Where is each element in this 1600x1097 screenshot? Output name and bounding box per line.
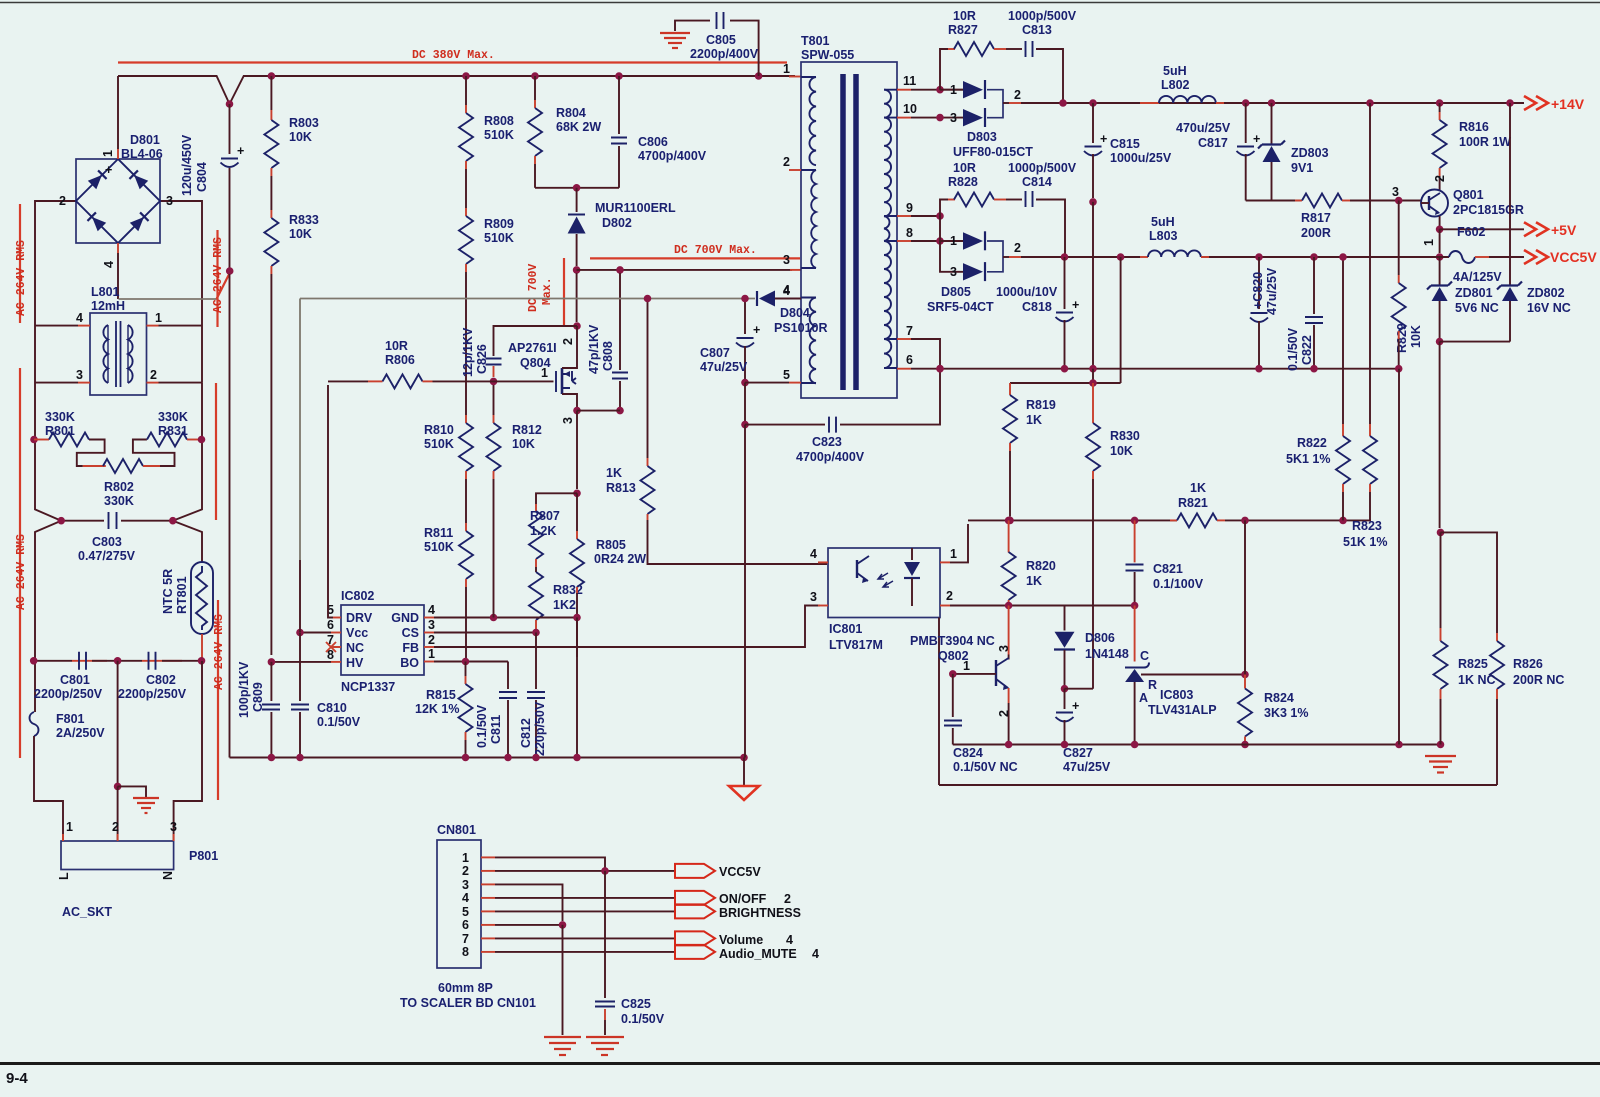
svg-text:4: 4	[76, 311, 83, 325]
zener ZD803	[1271, 103, 1273, 145]
svg-text:R833: R833	[289, 213, 319, 227]
svg-text:VCC5V: VCC5V	[719, 865, 761, 879]
wire DRV pin5	[333, 617, 341, 619]
svg-text:Vcc: Vcc	[346, 626, 368, 640]
transformer T801	[801, 62, 897, 398]
wire CN801 pin6	[481, 924, 495, 926]
resistor R825	[1437, 529, 1445, 537]
wire Vcc pin6	[331, 632, 341, 634]
T801 primary winding pins1-3	[809, 77, 816, 165]
svg-text:+5V: +5V	[1551, 222, 1577, 238]
svg-text:1: 1	[462, 851, 469, 865]
svg-text:C824: C824	[953, 746, 983, 760]
shunt IC803 TLV431	[1134, 606, 1136, 662]
flag ON/OFF	[675, 891, 715, 905]
pin7 NC no-connect	[326, 642, 341, 652]
svg-text:Q801: Q801	[1453, 188, 1484, 202]
svg-text:C804: C804	[195, 162, 209, 192]
wire source node	[577, 410, 620, 412]
wire IC803 ref line	[1141, 674, 1245, 676]
svg-text:1K: 1K	[606, 466, 622, 480]
capacitor C827	[1064, 689, 1066, 709]
wire L801 pin1	[147, 325, 159, 327]
wire BO pin1	[424, 661, 434, 663]
svg-text:N: N	[161, 871, 175, 880]
wire drain node	[576, 273, 578, 322]
resistor R809	[459, 216, 473, 264]
svg-text:5V6 NC: 5V6 NC	[1455, 301, 1499, 315]
svg-text:R819: R819	[1026, 398, 1056, 412]
resistor R820	[1005, 517, 1013, 525]
capacitor C818	[1064, 257, 1066, 309]
svg-text:7: 7	[462, 932, 469, 946]
svg-text:10R: 10R	[953, 9, 976, 23]
svg-text:3: 3	[166, 194, 173, 208]
wire CN801 pin3	[481, 883, 495, 885]
main HV bus wire	[118, 76, 795, 104]
svg-text:1K2: 1K2	[553, 598, 576, 612]
resistor R808	[465, 76, 467, 105]
wire L801 pin2	[147, 382, 159, 384]
wire pin2 column to P801	[117, 661, 119, 787]
svg-text:3: 3	[950, 265, 957, 279]
svg-text:9: 9	[906, 201, 913, 215]
snubber loop R828/C814	[940, 200, 948, 217]
SEC-AC-INPUT	[15, 201, 226, 919]
svg-text:47u/25V: 47u/25V	[1265, 267, 1279, 315]
resistor R826	[1441, 532, 1498, 633]
svg-text:C825: C825	[621, 997, 651, 1011]
resistor R829	[1398, 201, 1400, 276]
thermistor RT801	[191, 562, 213, 634]
svg-text:DC 700V Max.: DC 700V Max.	[674, 244, 757, 257]
wire CN801 pin8 Audio_MUTE	[481, 951, 495, 953]
capacitor C805 loop	[730, 21, 759, 76]
svg-text:R810: R810	[424, 423, 454, 437]
wire R819/R830 tie line	[1120, 257, 1122, 383]
zener ZD802	[1509, 103, 1511, 285]
svg-text:2: 2	[462, 864, 469, 878]
svg-text:4: 4	[812, 947, 819, 961]
svg-text:3: 3	[561, 417, 575, 424]
wire pin7	[897, 338, 911, 340]
wire return line y785	[939, 784, 1497, 786]
wire R821 node down to IC803 ref	[1244, 520, 1246, 674]
resistor R819	[1009, 383, 1011, 395]
svg-text:330K: 330K	[45, 410, 75, 424]
red marker AC 264V RMS left lower	[19, 368, 21, 758]
svg-text:R826: R826	[1513, 657, 1543, 671]
svg-text:1000u/25V: 1000u/25V	[1110, 151, 1172, 165]
svg-text:4: 4	[810, 547, 817, 561]
svg-text:R827: R827	[948, 23, 978, 37]
svg-text:2: 2	[946, 589, 953, 603]
svg-text:R804: R804	[556, 106, 586, 120]
wire pin3 column to P801	[174, 661, 202, 841]
connector P801	[61, 841, 174, 870]
resistor R816	[1439, 103, 1441, 112]
capacitor C812	[535, 633, 537, 690]
svg-text:9V1: 9V1	[1291, 161, 1313, 175]
resistor R821	[1170, 519, 1177, 521]
svg-text:C821: C821	[1153, 562, 1183, 576]
resistor R806	[328, 380, 368, 382]
svg-text:1K: 1K	[1026, 574, 1042, 588]
SEC-FEEDBACK	[810, 103, 1564, 785]
svg-text:R820: R820	[1026, 559, 1056, 573]
capacitor C801	[79, 652, 86, 670]
node C803 line	[61, 520, 104, 522]
svg-text:510K: 510K	[484, 128, 514, 142]
svg-text:ON/OFF: ON/OFF	[719, 892, 767, 906]
svg-text:5K1 1%: 5K1 1%	[1286, 452, 1330, 466]
svg-text:D801: D801	[130, 133, 160, 147]
T801 primary winding pins4-5	[810, 298, 816, 384]
svg-text:3: 3	[170, 820, 177, 834]
svg-text:F801: F801	[56, 712, 85, 726]
svg-text:10: 10	[903, 102, 917, 116]
svg-text:C822: C822	[1300, 335, 1314, 365]
svg-text:1N4148: 1N4148	[1085, 647, 1129, 661]
inductor L801	[90, 313, 147, 395]
svg-text:10R: 10R	[385, 339, 408, 353]
svg-text:47p/1KV: 47p/1KV	[587, 324, 601, 374]
svg-text:AC 264V RMS: AC 264V RMS	[15, 534, 28, 610]
svg-text:IC801: IC801	[829, 622, 862, 636]
svg-text:R831: R831	[158, 424, 188, 438]
svg-text:0.1/50V: 0.1/50V	[317, 715, 361, 729]
capacitor C809	[270, 662, 272, 701]
svg-text:3: 3	[783, 253, 790, 267]
svg-text:4700p/400V: 4700p/400V	[638, 149, 707, 163]
svg-text:200R: 200R	[1301, 226, 1331, 240]
red marker AC 264V RMS right of bridge	[216, 230, 218, 327]
SEC-T801	[300, 9, 1524, 758]
svg-text:3: 3	[76, 368, 83, 382]
svg-text:2200p/400V: 2200p/400V	[690, 47, 759, 61]
wire CS pin3	[424, 632, 434, 634]
resistor R811	[459, 531, 473, 579]
svg-text:DC 380V Max.: DC 380V Max.	[412, 49, 495, 62]
svg-text:1: 1	[783, 62, 790, 76]
svg-text:+: +	[237, 144, 244, 158]
svg-text:C812: C812	[519, 718, 533, 748]
svg-text:3: 3	[462, 878, 469, 892]
svg-text:Volume: Volume	[719, 933, 763, 947]
svg-text:8: 8	[462, 945, 469, 959]
svg-text:1: 1	[950, 83, 957, 97]
IC801 light arrows	[878, 573, 888, 579]
svg-text:C827: C827	[1063, 746, 1093, 760]
capacitor C802	[149, 652, 156, 670]
svg-text:T801: T801	[801, 34, 830, 48]
wire IC801 pin1	[940, 561, 950, 563]
svg-text:AC 264V RMS: AC 264V RMS	[212, 237, 225, 313]
svg-text:P801: P801	[189, 849, 218, 863]
wire GND pin4	[424, 617, 434, 619]
svg-text:10K: 10K	[512, 437, 535, 451]
svg-text:16V NC: 16V NC	[1527, 301, 1571, 315]
svg-text:220p/50V: 220p/50V	[533, 701, 547, 756]
inductor L802	[1140, 102, 1159, 104]
resistor R832	[535, 567, 537, 572]
node C801/C802 line	[34, 660, 72, 662]
svg-text:C: C	[1140, 649, 1149, 663]
svg-text:TO SCALER BD CN101: TO SCALER BD CN101	[400, 996, 536, 1010]
svg-text:4: 4	[462, 891, 469, 905]
svg-text:6: 6	[462, 918, 469, 932]
svg-text:330K: 330K	[104, 494, 134, 508]
svg-text:AC 264V RMS: AC 264V RMS	[15, 240, 28, 316]
svg-text:3: 3	[810, 590, 817, 604]
svg-text:L: L	[57, 872, 71, 880]
svg-text:68K 2W: 68K 2W	[556, 120, 601, 134]
wire CN801 pin5 BRIGHTNESS	[481, 910, 495, 912]
svg-text:Q802: Q802	[938, 649, 969, 663]
wire IC801 pin4	[818, 561, 828, 563]
resistor R803	[270, 76, 272, 110]
svg-text:60mm 8P: 60mm 8P	[438, 981, 493, 995]
wire pin6 secondary ground bus start	[897, 368, 911, 370]
resistor R823	[1369, 103, 1371, 424]
svg-text:0.1/50V: 0.1/50V	[621, 1012, 665, 1026]
svg-text:D805: D805	[941, 285, 971, 299]
svg-text:10K: 10K	[1110, 444, 1133, 458]
capacitor C826	[494, 326, 578, 356]
resistor R830	[1092, 383, 1094, 423]
svg-text:1: 1	[155, 311, 162, 325]
svg-text:47u/25V: 47u/25V	[700, 360, 748, 374]
svg-text:0.1/50V NC: 0.1/50V NC	[953, 760, 1018, 774]
svg-text:10K: 10K	[289, 227, 312, 241]
svg-text:0R24 2W: 0R24 2W	[594, 552, 646, 566]
svg-text:UFF80-015CT: UFF80-015CT	[953, 145, 1033, 159]
svg-text:5uH: 5uH	[1163, 64, 1187, 78]
wire CN801 pin7 Volume	[481, 937, 495, 939]
svg-text:3K3 1%: 3K3 1%	[1264, 706, 1308, 720]
svg-text:C802: C802	[146, 673, 176, 687]
svg-text:2: 2	[1014, 241, 1021, 255]
svg-text:R811: R811	[424, 526, 453, 540]
svg-text:BO: BO	[400, 656, 419, 670]
svg-text:+: +	[1072, 298, 1079, 312]
svg-text:2: 2	[783, 155, 790, 169]
svg-text:0.1/100V: 0.1/100V	[1153, 577, 1204, 591]
svg-text:R815: R815	[426, 688, 456, 702]
SEC-14V	[1084, 64, 1597, 528]
wire R805 bottom to GND line	[576, 618, 578, 758]
svg-text:2: 2	[428, 633, 435, 647]
wire FB pin2 long	[424, 646, 434, 648]
svg-text:200R NC: 200R NC	[1513, 673, 1564, 687]
wire left rail to F801	[34, 661, 36, 712]
svg-text:7: 7	[906, 324, 913, 338]
ground at pin3/6	[544, 1037, 581, 1055]
svg-text:CS: CS	[402, 626, 419, 640]
wire IC801 pin2 return down	[938, 618, 940, 786]
svg-text:2: 2	[1433, 175, 1447, 182]
svg-text:NC: NC	[346, 641, 364, 655]
svg-text:1.2K: 1.2K	[530, 524, 556, 538]
ground at C825	[586, 1037, 624, 1055]
svg-text:DRV: DRV	[346, 611, 373, 625]
svg-text:+: +	[1100, 132, 1107, 146]
wire CN801 pin1	[481, 856, 495, 858]
svg-text:2: 2	[997, 710, 1011, 717]
resistor R831	[147, 433, 187, 447]
wire HV return rail	[229, 274, 231, 758]
resistor R822	[1342, 257, 1344, 424]
wire primary ground bus	[230, 757, 745, 759]
svg-text:5uH: 5uH	[1151, 215, 1175, 229]
svg-text:L801: L801	[91, 285, 120, 299]
IC801 phototransistor	[856, 560, 858, 578]
svg-text:0.1/50V: 0.1/50V	[475, 704, 489, 748]
capacitor C807	[744, 299, 746, 335]
svg-text:LTV817M: LTV817M	[829, 638, 883, 652]
svg-text:1: 1	[101, 150, 115, 157]
svg-text:C808: C808	[601, 341, 615, 371]
capacitor C822	[1310, 253, 1318, 261]
svg-text:C815: C815	[1110, 137, 1140, 151]
svg-text:100p/1KV: 100p/1KV	[237, 661, 251, 718]
flag BRIGHTNESS	[675, 904, 715, 918]
svg-text:12p/1KV: 12p/1KV	[461, 327, 475, 377]
SEC-BRIDGE	[35, 76, 230, 395]
wire T801 pin2 stub	[789, 169, 801, 171]
resistor R802	[77, 440, 105, 467]
diode D802	[576, 188, 578, 212]
optocoupler IC801	[828, 548, 940, 618]
svg-text:AC 264V RMS: AC 264V RMS	[213, 614, 226, 690]
svg-text:C801: C801	[60, 673, 90, 687]
svg-text:R817: R817	[1301, 211, 1331, 225]
svg-text:NTC 5R: NTC 5R	[161, 569, 175, 614]
svg-text:51K 1%: 51K 1%	[1343, 535, 1387, 549]
svg-text:C806: C806	[638, 135, 668, 149]
svg-text:4: 4	[428, 603, 435, 617]
wire bridge pin3 to right rail	[160, 201, 202, 322]
red DC 700V marker line	[590, 257, 800, 259]
mosfet Q804	[555, 371, 557, 392]
svg-text:4: 4	[786, 933, 793, 947]
svg-text:PMBT3904 NC: PMBT3904 NC	[910, 634, 995, 648]
capacitor C823	[745, 424, 825, 426]
svg-text:R806: R806	[385, 353, 415, 367]
capacitor C824	[952, 674, 954, 717]
op-amp IC802 NCP1337	[341, 605, 424, 675]
svg-text:5: 5	[462, 905, 469, 919]
wire bridge pin4 down	[117, 243, 119, 253]
svg-text:6: 6	[327, 618, 334, 632]
svg-text:0.47/275V: 0.47/275V	[78, 549, 136, 563]
resistor R815	[465, 662, 467, 677]
svg-text:10K: 10K	[1409, 325, 1423, 348]
svg-text:C803: C803	[92, 535, 122, 549]
svg-text:1: 1	[66, 820, 73, 834]
svg-text:+: +	[1072, 699, 1079, 713]
svg-text:C810: C810	[317, 701, 347, 715]
svg-text:2: 2	[112, 820, 119, 834]
svg-text:R821: R821	[1178, 496, 1208, 510]
svg-text:R807: R807	[530, 509, 560, 523]
svg-text:2: 2	[150, 368, 157, 382]
svg-text:2: 2	[784, 892, 791, 906]
flag Volume	[675, 931, 715, 945]
svg-text:C809: C809	[251, 682, 265, 712]
diode D801 top-left	[88, 170, 107, 189]
svg-text:PS1010R: PS1010R	[774, 321, 828, 335]
capacitor C825	[604, 871, 606, 998]
flag Audio_MUTE	[675, 945, 715, 959]
svg-text:1K: 1K	[1190, 481, 1206, 495]
svg-text:ZD801: ZD801	[1455, 286, 1493, 300]
diode D803 dual	[940, 89, 980, 91]
node DC700 line to T801 pin3	[577, 269, 792, 271]
svg-text:330K: 330K	[158, 410, 188, 424]
svg-text:+: +	[753, 323, 760, 337]
wire left rail down	[35, 322, 61, 661]
svg-text:3: 3	[428, 618, 435, 632]
wire grey bridge pin4 to C804 return	[119, 298, 217, 300]
svg-text:ZD803: ZD803	[1291, 146, 1329, 160]
resistor R807	[536, 493, 577, 504]
wire C807 column down	[744, 383, 746, 425]
svg-text:R816: R816	[1459, 120, 1489, 134]
svg-text:1: 1	[428, 647, 435, 661]
capacitor C806	[618, 76, 620, 134]
svg-text:VCC5V: VCC5V	[1550, 249, 1597, 265]
svg-text:NCP1337: NCP1337	[341, 680, 395, 694]
svg-text:12mH: 12mH	[91, 299, 125, 313]
wire pin10	[897, 117, 911, 119]
svg-text:R830: R830	[1110, 429, 1140, 443]
svg-text:BL4-06: BL4-06	[121, 147, 163, 161]
svg-text:CN801: CN801	[437, 823, 476, 837]
svg-text:Audio_MUTE: Audio_MUTE	[719, 947, 797, 961]
svg-text:10R: 10R	[953, 161, 976, 175]
svg-text:2: 2	[59, 194, 66, 208]
ground triangle primary	[743, 758, 745, 786]
diode D804	[756, 291, 758, 306]
red DC 380V marker line	[118, 61, 787, 63]
capacitor C804	[229, 104, 231, 154]
svg-text:10K: 10K	[289, 130, 312, 144]
T801 secondary winding pins11-9	[884, 90, 891, 118]
svg-text:R823: R823	[1352, 519, 1382, 533]
svg-text:C817: C817	[1198, 136, 1228, 150]
svg-text:AP2761I: AP2761I	[508, 341, 557, 355]
svg-text:510K: 510K	[424, 540, 454, 554]
resistor R801	[30, 436, 38, 444]
svg-text:C805: C805	[706, 33, 736, 47]
svg-text:120u/450V: 120u/450V	[180, 134, 194, 196]
transistor Q801	[1421, 190, 1448, 217]
svg-text:1: 1	[1422, 239, 1436, 246]
capacitor C815	[1092, 103, 1094, 143]
svg-text:D803: D803	[967, 130, 997, 144]
T801 secondary winding pins7-6	[884, 339, 891, 368]
fuse F801	[30, 712, 39, 736]
wire D805 out 5V rail	[1009, 256, 1021, 258]
svg-text:L803: L803	[1149, 229, 1178, 243]
SEC-IC802	[230, 299, 821, 801]
svg-text:100R 1W: 100R 1W	[1459, 135, 1511, 149]
wire bridge pin1 up to bus	[117, 149, 119, 159]
red marker AC 264V RMS left upper	[19, 204, 21, 323]
svg-text:ZD802: ZD802	[1527, 286, 1565, 300]
resistor R833	[264, 218, 278, 266]
